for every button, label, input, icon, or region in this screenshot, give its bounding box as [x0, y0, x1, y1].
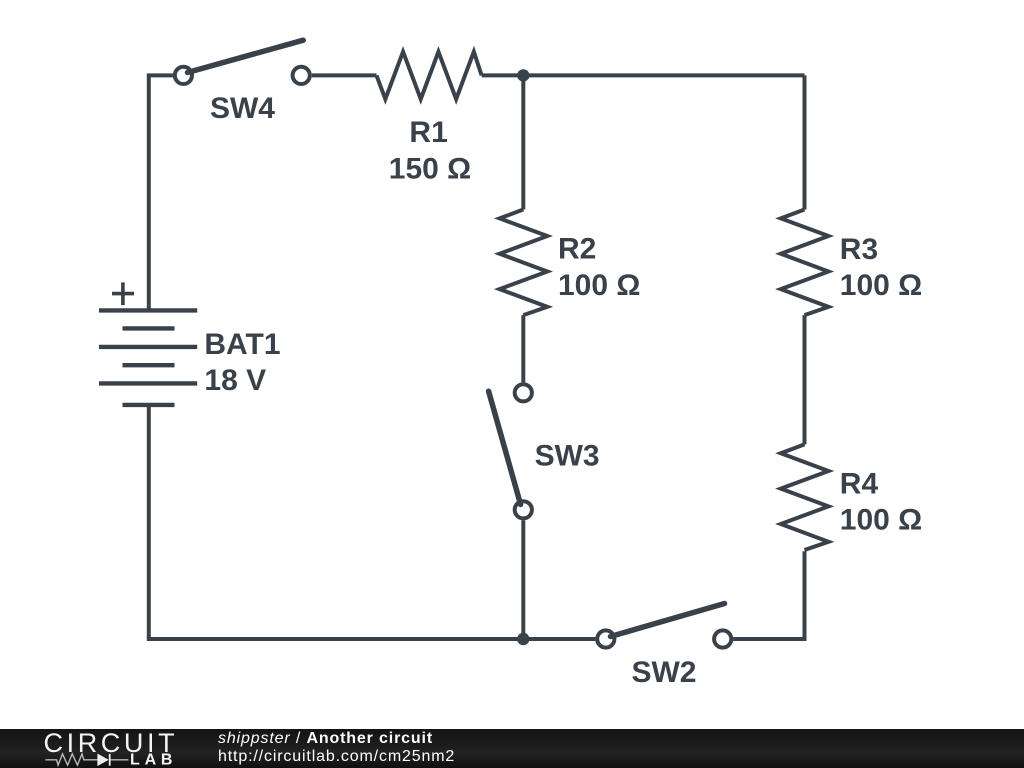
wire: battery - down and along bottom to SW2 — [149, 405, 596, 639]
footer bar — [0, 729, 1024, 768]
resistor R1 — [377, 52, 482, 99]
wire: junction down to R2 — [521, 75, 525, 209]
svg-text:100 Ω: 100 Ω — [558, 269, 640, 302]
svg-text:SW2: SW2 — [631, 656, 696, 689]
resistor R2 — [500, 210, 548, 316]
CircuitLab logo — [0, 729, 200, 768]
svg-text:SW3: SW3 — [535, 439, 600, 472]
svg-text:SW4: SW4 — [210, 92, 275, 125]
wire: left branch from battery + up and across to SW4 — [149, 75, 173, 310]
svg-text:100 Ω: 100 Ω — [840, 504, 922, 537]
wire: R1 to top-right corner — [482, 73, 805, 77]
svg-text:R2: R2 — [558, 233, 596, 266]
wire: SW2 to bottom-right corner up to R4 — [733, 551, 804, 639]
svg-text:LAB: LAB — [130, 752, 177, 768]
battery BAT1 plus sign — [112, 282, 134, 305]
switch SW4 — [175, 40, 310, 84]
node junction dot bottom — [517, 633, 529, 645]
battery BAT1 plates — [99, 310, 197, 405]
wire: SW3 down to bottom junction — [521, 520, 525, 639]
svg-text:R4: R4 — [840, 468, 879, 501]
svg-text:100 Ω: 100 Ω — [840, 269, 922, 302]
svg-text:BAT1: BAT1 — [204, 328, 280, 361]
wire: SW4 to R1 — [312, 73, 377, 77]
node junction dot top — [517, 69, 529, 81]
wire: top-right corner down to R3 — [803, 75, 807, 209]
credit text — [218, 730, 455, 766]
switch SW3 — [489, 384, 532, 518]
resistor R4 — [781, 444, 829, 550]
resistor R3 — [781, 210, 829, 316]
wire: R3 to R4 — [803, 315, 807, 444]
wire: R2 to SW3 — [521, 315, 525, 382]
svg-text:18 V: 18 V — [204, 364, 266, 397]
svg-text:150 Ω: 150 Ω — [389, 153, 471, 186]
switch SW2 — [597, 604, 731, 648]
svg-text:R3: R3 — [840, 233, 878, 266]
svg-text:R1: R1 — [409, 116, 447, 149]
